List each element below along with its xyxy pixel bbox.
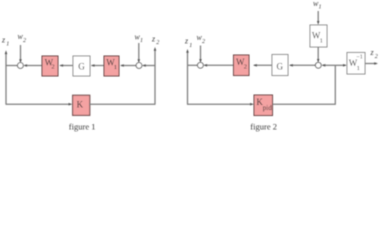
- svg-text:2: 2: [23, 38, 26, 44]
- wire z2 output arrow up from riser (figure 1): [154, 47, 157, 66]
- block W1 (figure 1): [104, 56, 119, 76]
- wire right riser down to feedback line (figure 1): [154, 66, 156, 105]
- block W2 (figure 2): [234, 55, 250, 76]
- svg-text:1: 1: [114, 64, 117, 71]
- wire G output into W2 (figure 1): [59, 64, 72, 67]
- node z2 output label (figure 2): [370, 48, 378, 60]
- wire Kpid output to riser (figure 2): [273, 103, 336, 105]
- summing junction S3 (figure 2): [198, 62, 204, 68]
- svg-text:1: 1: [319, 4, 322, 10]
- node w1 input label (figure 2): [313, 0, 322, 10]
- svg-text:1: 1: [140, 38, 143, 44]
- wire left vertical feedback drop (figure 1): [5, 66, 7, 105]
- svg-text:2: 2: [156, 40, 159, 46]
- wire K output to riser (figure 1): [89, 103, 156, 105]
- svg-text:z: z: [184, 37, 189, 46]
- wire junction J to W1inv input (figure 2): [335, 64, 347, 67]
- node z1 output label (figure 2): [184, 37, 192, 50]
- wire feedback junction into summing junction S4 (figure 2): [322, 64, 336, 67]
- node w2 input label (figure 1): [18, 32, 27, 44]
- wire W2 output into summing junction S1 (figure 1): [23, 64, 41, 67]
- wire feedback riser into summing junction S2 (figure 1): [142, 64, 155, 67]
- svg-text:1: 1: [189, 43, 192, 49]
- wire W2 output into summing junction S3 (figure 2): [203, 64, 233, 67]
- block G plant (figure 1): [73, 56, 90, 76]
- block W1 inverse (figure 2): [347, 53, 365, 75]
- node z1 output label (figure 1): [1, 36, 9, 48]
- svg-text:z: z: [370, 48, 375, 57]
- svg-text:2: 2: [375, 54, 378, 60]
- svg-text:z: z: [151, 35, 156, 44]
- svg-text:z: z: [1, 36, 6, 45]
- wire right riser down from junction J to feedback line (figure 2): [334, 65, 336, 104]
- svg-text:G: G: [78, 61, 85, 71]
- wire feedback line into Kpid (figure 2): [187, 103, 254, 106]
- svg-text:figure 1: figure 1: [69, 121, 96, 131]
- node w1 input label (figure 1): [135, 33, 144, 45]
- svg-text:G: G: [277, 62, 284, 72]
- wire left vertical feedback drop (figure 2): [187, 65, 189, 104]
- wire w1 input arrow down into block W1 (figure 2): [317, 11, 320, 25]
- wire feedback line into K (figure 1): [6, 103, 73, 106]
- summing junction S4 (figure 2): [315, 62, 321, 68]
- node z2 output label (figure 1): [151, 35, 159, 47]
- svg-text:pid: pid: [263, 104, 272, 112]
- wire W1 output into G (figure 1): [91, 64, 104, 67]
- wire G output into W2 (figure 2): [253, 64, 272, 67]
- svg-text:1: 1: [320, 38, 323, 45]
- wire z1 output arrow up from left vertical (figure 2): [186, 49, 189, 65]
- wire w2 input arrow down into summing junction S1 (figure 1): [19, 45, 22, 63]
- svg-text:figure 2: figure 2: [250, 122, 277, 132]
- summing junction S1 (figure 1): [18, 63, 24, 69]
- wire from left vertical to summing junction (figure 1): [6, 65, 18, 67]
- wire W1 output down into summing junction S4 (figure 2): [317, 47, 320, 63]
- wire z1 output arrow up from left vertical (figure 1): [5, 50, 8, 65]
- block Kpid controller (figure 2): [254, 95, 273, 116]
- block W2 (figure 1): [42, 56, 58, 76]
- block K controller (figure 1): [73, 95, 90, 115]
- wire from left vertical to summing junction (figure 2): [188, 64, 198, 66]
- svg-text:2: 2: [51, 64, 54, 71]
- wire summing junction S4 output into G (figure 2): [289, 64, 316, 67]
- svg-text:K: K: [77, 100, 84, 110]
- wire w1 input arrow down into summing junction S2 (figure 1): [138, 43, 141, 63]
- block W1 weighting (figure 2): [310, 25, 327, 47]
- node w2 input label (figure 2): [197, 33, 206, 45]
- block G plant (figure 2): [272, 55, 288, 76]
- wire w2 input arrow down into summing junction S3 (figure 2): [199, 46, 202, 63]
- summing junction S2 (figure 1): [136, 63, 142, 69]
- svg-text:2: 2: [244, 64, 247, 71]
- svg-text:2: 2: [202, 39, 205, 45]
- svg-text:1: 1: [6, 42, 9, 48]
- svg-text:1: 1: [357, 65, 360, 72]
- wire summing junction S2 output into W1 (figure 1): [120, 64, 136, 67]
- wire W1inv output to z2 (figure 2): [365, 62, 378, 65]
- svg-text:−1: −1: [356, 54, 362, 60]
